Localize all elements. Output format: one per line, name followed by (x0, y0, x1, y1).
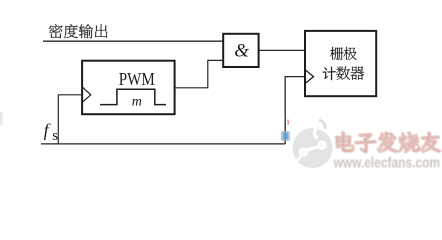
svg-text:&: & (234, 41, 249, 62)
svg-text:www.elecfans.com: www.elecfans.com (333, 156, 440, 172)
block U1: PWM modulator (82, 61, 175, 114)
label: density output 密度输出 (49, 24, 63, 38)
watermark text: 电子发烧友 (red) (336, 132, 440, 152)
scan artifact: blue square on W4 (281, 131, 290, 141)
block U3: gate counter 栅极计数器 (305, 31, 376, 96)
clock input triangle on U1 left edge (83, 87, 91, 102)
clock input triangle on U3 left edge (306, 70, 314, 83)
wire W5: U1 output to AND gate lower input (175, 60, 224, 87)
wire W2: fs rail to U1 clock input (58, 95, 82, 144)
wire W3: fs bottom rail (41, 143, 285, 145)
wire W4: rail up to U3 clock input (285, 77, 305, 144)
wire W1: density output line to AND gate top input (43, 40, 223, 42)
gate U2: AND (&) (223, 34, 258, 67)
svg-text:PWM: PWM (119, 69, 155, 89)
label: 计数器 (counter) (322, 67, 336, 81)
wire W6: AND output to U3 input (259, 49, 305, 51)
svg-text:m: m (132, 95, 142, 110)
scan artifact: faint smudge on left edge (0, 112, 3, 125)
pulse waveform symbol inside U1 (100, 89, 166, 104)
svg-text:s: s (52, 128, 58, 144)
watermark logo: elecfans circle emblem (293, 120, 333, 168)
label: 栅极 (gate) (330, 47, 343, 60)
scan artifact: red tick above blue square (287, 120, 290, 125)
